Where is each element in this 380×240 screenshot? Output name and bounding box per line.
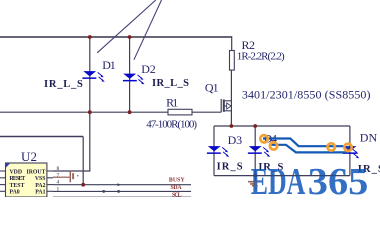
diode D3 — [207, 146, 229, 157]
U2 pin names — [10, 170, 46, 196]
ground bars showing through watermark — [248, 181, 258, 187]
svg-text:47-100R(100): 47-100R(100) — [146, 119, 197, 131]
wire D2 column — [129, 37, 131, 112]
svg-text:RESET: RESET — [10, 176, 26, 182]
wire D4 column — [254, 126, 256, 176]
svg-text:DN: DN — [360, 131, 378, 145]
bus dot SDA 2 — [117, 190, 120, 193]
svg-text:R1: R1 — [166, 95, 178, 109]
junction D1 anode at top rail — [88, 35, 92, 39]
svg-text:D1: D1 — [102, 58, 116, 72]
diode D1 — [82, 71, 104, 82]
junction D2 anode at top rail — [128, 35, 132, 39]
svg-text:IR_L_S: IR_L_S — [44, 79, 83, 90]
wire LED box top rail — [214, 125, 350, 127]
junction D1 cathode at R1 rail — [88, 110, 92, 114]
annotation circle 3 — [328, 143, 335, 150]
svg-text:D2: D2 — [141, 62, 156, 76]
svg-text:PA2: PA2 — [35, 183, 45, 189]
capacitor at VSS — [53, 171, 78, 183]
annotation leader line A — [97, 0, 156, 53]
wire mid rail to R1 — [0, 111, 168, 113]
ground — [248, 176, 258, 190]
svg-text:7: 7 — [57, 173, 60, 179]
svg-text:365: 365 — [308, 161, 369, 197]
wire D3 column — [213, 126, 215, 176]
svg-text:3401/2301/8550 (SS8550): 3401/2301/8550 (SS8550) — [242, 87, 371, 101]
wire R1 to Q1 gate — [192, 111, 221, 113]
junction at BUSY line — [81, 183, 85, 187]
svg-text:1R-2.2R(2.2): 1R-2.2R(2.2) — [237, 51, 285, 63]
junction Q1 source at LED rail — [230, 124, 234, 128]
svg-text:IR_S: IR_S — [217, 162, 243, 173]
wire bottom rail showing through watermark — [250, 175, 350, 177]
svg-text:TEST: TEST — [10, 183, 25, 189]
annotation circle 1 — [260, 135, 267, 142]
junction D2 cathode at R1 rail — [128, 110, 132, 114]
wire IROUT to column — [53, 170, 90, 172]
svg-text:BUSY: BUSY — [169, 178, 186, 184]
bus BUSY — [53, 184, 191, 186]
svg-text:IROUT: IROUT — [26, 170, 45, 176]
wire vertical to BUSY — [82, 137, 84, 185]
transistor Q1 — [221, 99, 231, 112]
svg-text:D3: D3 — [228, 133, 243, 147]
svg-text:EDA: EDA — [251, 161, 306, 197]
U2 right pins — [47, 171, 53, 191]
annotation scribble upper — [263, 139, 344, 147]
annotation leader line B — [134, 0, 162, 60]
svg-text:SCL: SCL — [172, 193, 182, 197]
watermark EDA365 — [251, 161, 368, 203]
bus SDA — [53, 190, 191, 192]
bus arrow BUSY — [118, 183, 122, 186]
wire DN column — [349, 126, 351, 176]
wire top rail — [0, 36, 232, 38]
wire LED box bottom rail — [214, 175, 350, 177]
wire R2 top — [231, 36, 233, 50]
resistor R2 — [230, 51, 235, 71]
diode DN — [343, 146, 360, 158]
svg-text:PA1: PA1 — [35, 190, 45, 196]
svg-text:PA0: PA0 — [10, 190, 20, 196]
bus dot SDA 1 — [102, 190, 105, 193]
U2 pin numbers — [57, 166, 60, 192]
diode D4 — [248, 146, 270, 157]
annotation scribble lower — [272, 145, 349, 153]
diode D2 — [123, 74, 145, 85]
svg-text:8: 8 — [57, 166, 60, 172]
svg-text:VSS: VSS — [35, 176, 46, 182]
wire Q1 drain-source column — [230, 70, 232, 126]
IC U2 — [6, 163, 47, 197]
resistor R1 — [168, 109, 192, 115]
wire left stub rail — [0, 136, 83, 138]
bus SCL — [53, 196, 191, 198]
junction D4 cathode at ground rail — [253, 174, 257, 178]
svg-text:U2: U2 — [21, 149, 37, 164]
svg-text:Q1: Q1 — [205, 80, 219, 94]
svg-text:IR_L_S: IR_L_S — [152, 78, 189, 89]
annotation circle 2 — [270, 142, 277, 149]
annotation circle 4 — [344, 144, 351, 151]
junction D4 anode at LED rail — [253, 124, 257, 128]
annotation dot in circle 4 — [346, 146, 349, 149]
svg-text:VDD: VDD — [10, 170, 23, 176]
svg-text:SDA: SDA — [171, 185, 183, 191]
wire D1 column — [89, 37, 91, 171]
U2 left pins — [0, 171, 6, 191]
